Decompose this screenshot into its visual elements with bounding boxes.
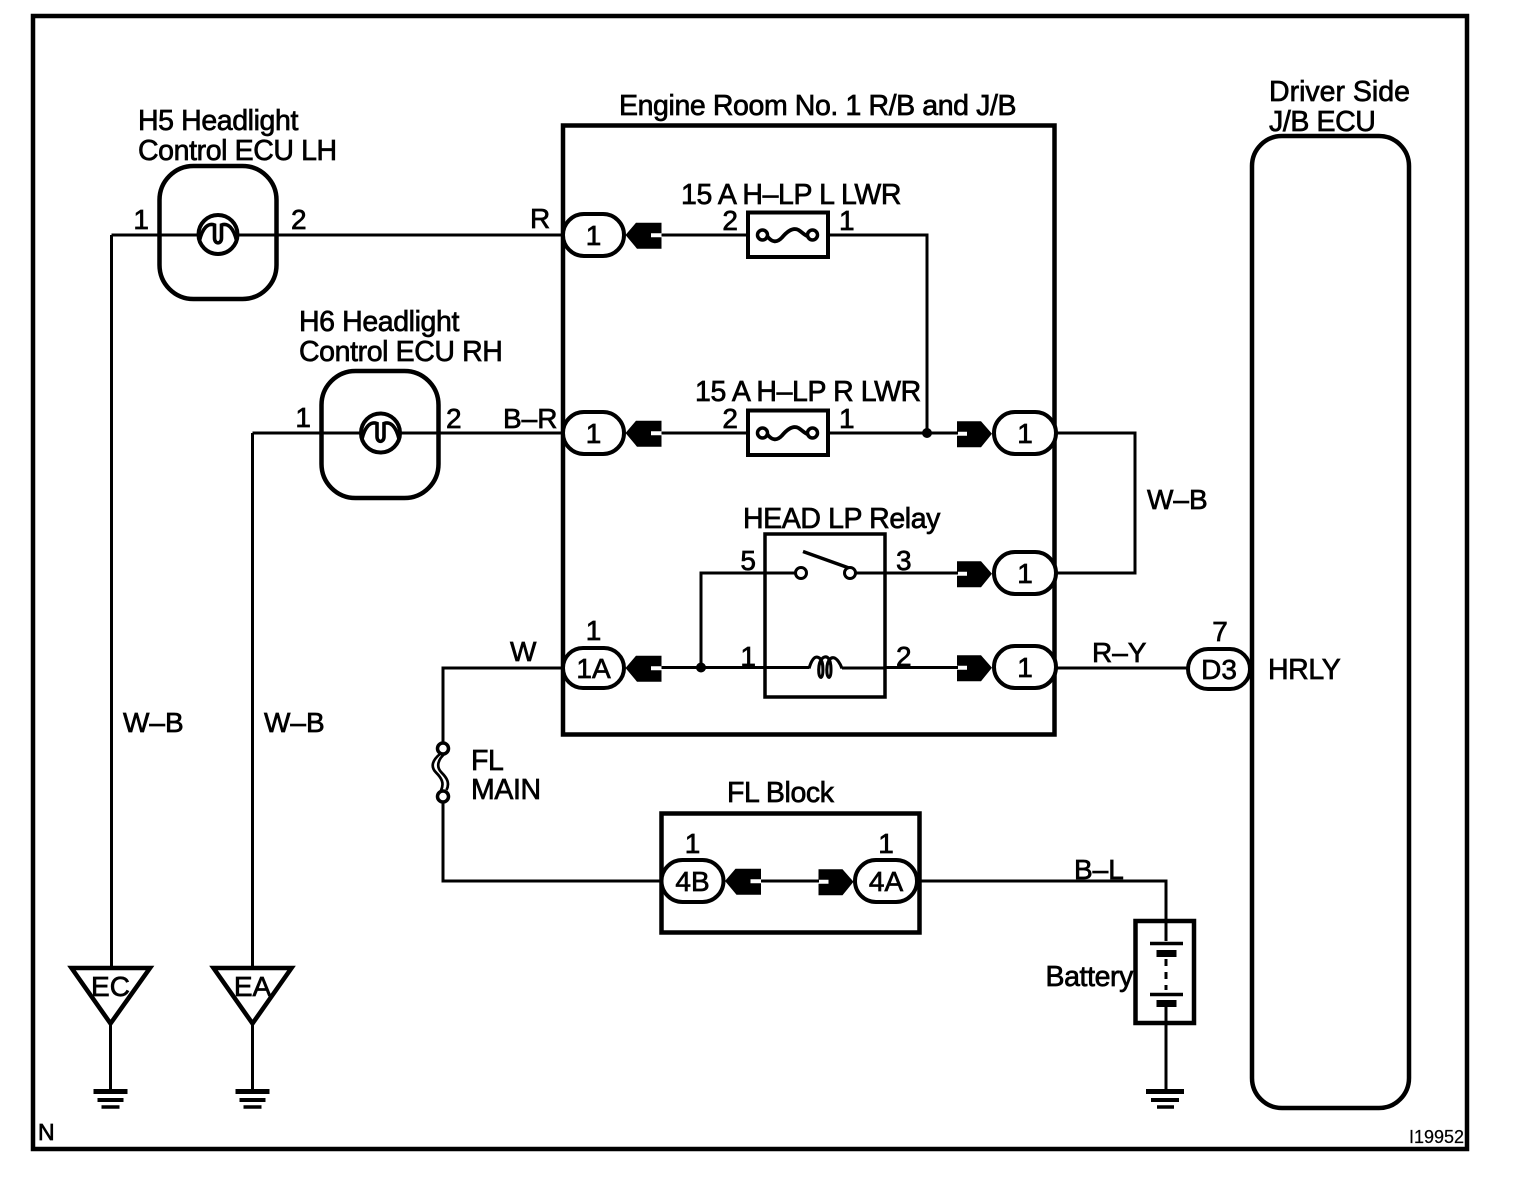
svg-text:1: 1 [586,220,602,251]
svg-text:W: W [510,636,537,667]
ground EC triangle [72,968,151,1024]
svg-text:1: 1 [839,205,855,236]
terminal arrow (1A) [626,656,662,682]
ground symbol EC [94,1092,128,1108]
driver side J/B ECU box [1252,136,1409,1108]
terminal arrow right (row 2) [957,421,992,447]
connector oval 1 (row 573 right) [994,552,1056,594]
wire W-B down to EC [110,235,113,968]
relay coil [809,657,842,678]
svg-text:W–B: W–B [1147,484,1208,515]
svg-text:EA: EA [234,971,272,1002]
svg-text:R–Y: R–Y [1092,637,1147,668]
svg-text:Driver Side: Driver Side [1269,76,1410,108]
wire battery to ground [1165,1023,1168,1089]
svg-text:D3: D3 [1201,654,1237,685]
wire 4A to battery [917,881,1166,921]
wire W-B loop right [1056,433,1135,573]
wire EC to ground [109,1023,112,1089]
svg-text:1: 1 [133,204,149,235]
svg-text:MAIN: MAIN [471,774,541,806]
svg-text:HEAD LP Relay: HEAD LP Relay [743,503,941,535]
relay box [765,534,885,697]
wire R-Y [1056,667,1188,670]
ground EA triangle [214,968,292,1024]
svg-text:FL Block: FL Block [727,777,835,809]
wire between FL block arrows [761,880,819,883]
connector oval 4A [855,860,917,902]
svg-text:B–L: B–L [1074,854,1124,885]
ground symbol battery [1146,1092,1184,1108]
wire W-B down to EA [251,433,254,968]
junction node [922,428,932,438]
wire 1A to FL MAIN [443,668,563,742]
svg-text:B–R: B–R [503,403,557,434]
svg-text:15 A H–LP L LWR: 15 A H–LP L LWR [681,179,901,211]
svg-text:2: 2 [446,403,462,434]
svg-text:4B: 4B [675,866,709,897]
lamp H5 [199,215,238,254]
svg-text:H6 Headlight: H6 Headlight [299,306,459,338]
wire fuse 1 to junction [828,235,927,433]
svg-text:1: 1 [878,828,894,859]
junction node (coil row) [696,663,706,673]
wire FL MAIN to FL block [443,802,663,881]
wire H5 pin2 to R/B [237,234,565,237]
connector oval 1A [563,648,624,688]
terminal arrow (row 2) [626,421,662,447]
svg-text:EC: EC [91,971,130,1002]
wire coil to arrow [842,666,958,670]
svg-text:4A: 4A [869,866,904,897]
svg-text:1: 1 [586,615,602,646]
connector oval 1 (row 1 left) [563,214,624,256]
wire arrow to fuse 2 [662,432,749,435]
wire junction to arrow [927,432,958,435]
fusible link FL MAIN [433,743,449,802]
svg-text:HRLY: HRLY [1268,654,1341,686]
lamp H6 [361,414,400,453]
terminal arrow right (row 573) [957,561,992,587]
svg-text:Battery: Battery [1046,961,1135,993]
svg-text:1: 1 [839,403,855,434]
svg-text:H5 Headlight: H5 Headlight [138,105,298,137]
connector oval 1 (row 2 left) [563,412,624,454]
svg-text:5: 5 [740,545,756,576]
wire H6 pin2 to R/B [399,432,565,435]
svg-text:N: N [38,1119,55,1145]
fuse 15 A H-LP R LWR [748,411,828,456]
terminal arrow right (coil row) [957,655,992,681]
fuse 15 A H-LP L LWR [748,213,828,258]
wire arrow to fuse 1 [662,234,749,237]
svg-text:I19952: I19952 [1409,1127,1464,1147]
svg-text:Engine Room No. 1 R/B and J/B: Engine Room No. 1 R/B and J/B [619,90,1016,122]
wire relay pin 5 to coil row [701,573,765,668]
wire H5 pin1 left [112,234,200,237]
svg-text:J/B ECU: J/B ECU [1269,106,1375,138]
headlight control ECU H5 box [160,166,277,299]
svg-text:1A: 1A [576,653,611,684]
terminal arrow (4A) [819,869,854,895]
wire 1A arrow to relay coil [662,666,810,669]
connector oval 1 (row 2 right) [994,412,1056,454]
svg-text:2: 2 [291,204,307,235]
svg-text:7: 7 [1212,616,1228,647]
svg-text:1: 1 [1017,652,1033,683]
svg-text:1: 1 [1017,418,1033,449]
engine room No.1 R/B and J/B box [563,126,1055,735]
FL block box [662,814,920,933]
headlight control ECU H6 box [322,371,439,498]
svg-text:W–B: W–B [123,707,184,738]
battery [1136,921,1195,1023]
wire EA to ground [251,1023,254,1089]
terminal arrow (4B) [725,869,761,895]
svg-text:Control ECU LH: Control ECU LH [138,135,337,167]
svg-text:FL: FL [471,745,503,777]
svg-text:W–B: W–B [264,707,325,738]
svg-text:1: 1 [295,402,311,433]
connector oval 1 (coil row right) [994,646,1056,688]
ground symbol EA [236,1092,270,1108]
svg-text:Control ECU RH: Control ECU RH [299,336,502,368]
svg-text:1: 1 [1017,558,1033,589]
connector oval D3 [1188,649,1250,689]
wire fuse 2 to junction [828,432,927,435]
connector oval 4B [662,860,724,902]
svg-text:1: 1 [586,418,602,449]
relay switch [765,552,885,579]
svg-text:1: 1 [685,828,701,859]
terminal arrow (row 1) [626,223,662,249]
svg-text:R: R [530,203,550,234]
wire H6 pin1 left [253,432,363,435]
svg-text:3: 3 [896,545,912,576]
svg-text:15 A H–LP R LWR: 15 A H–LP R LWR [695,376,921,408]
wire relay pin 3 to arrow [885,572,958,575]
